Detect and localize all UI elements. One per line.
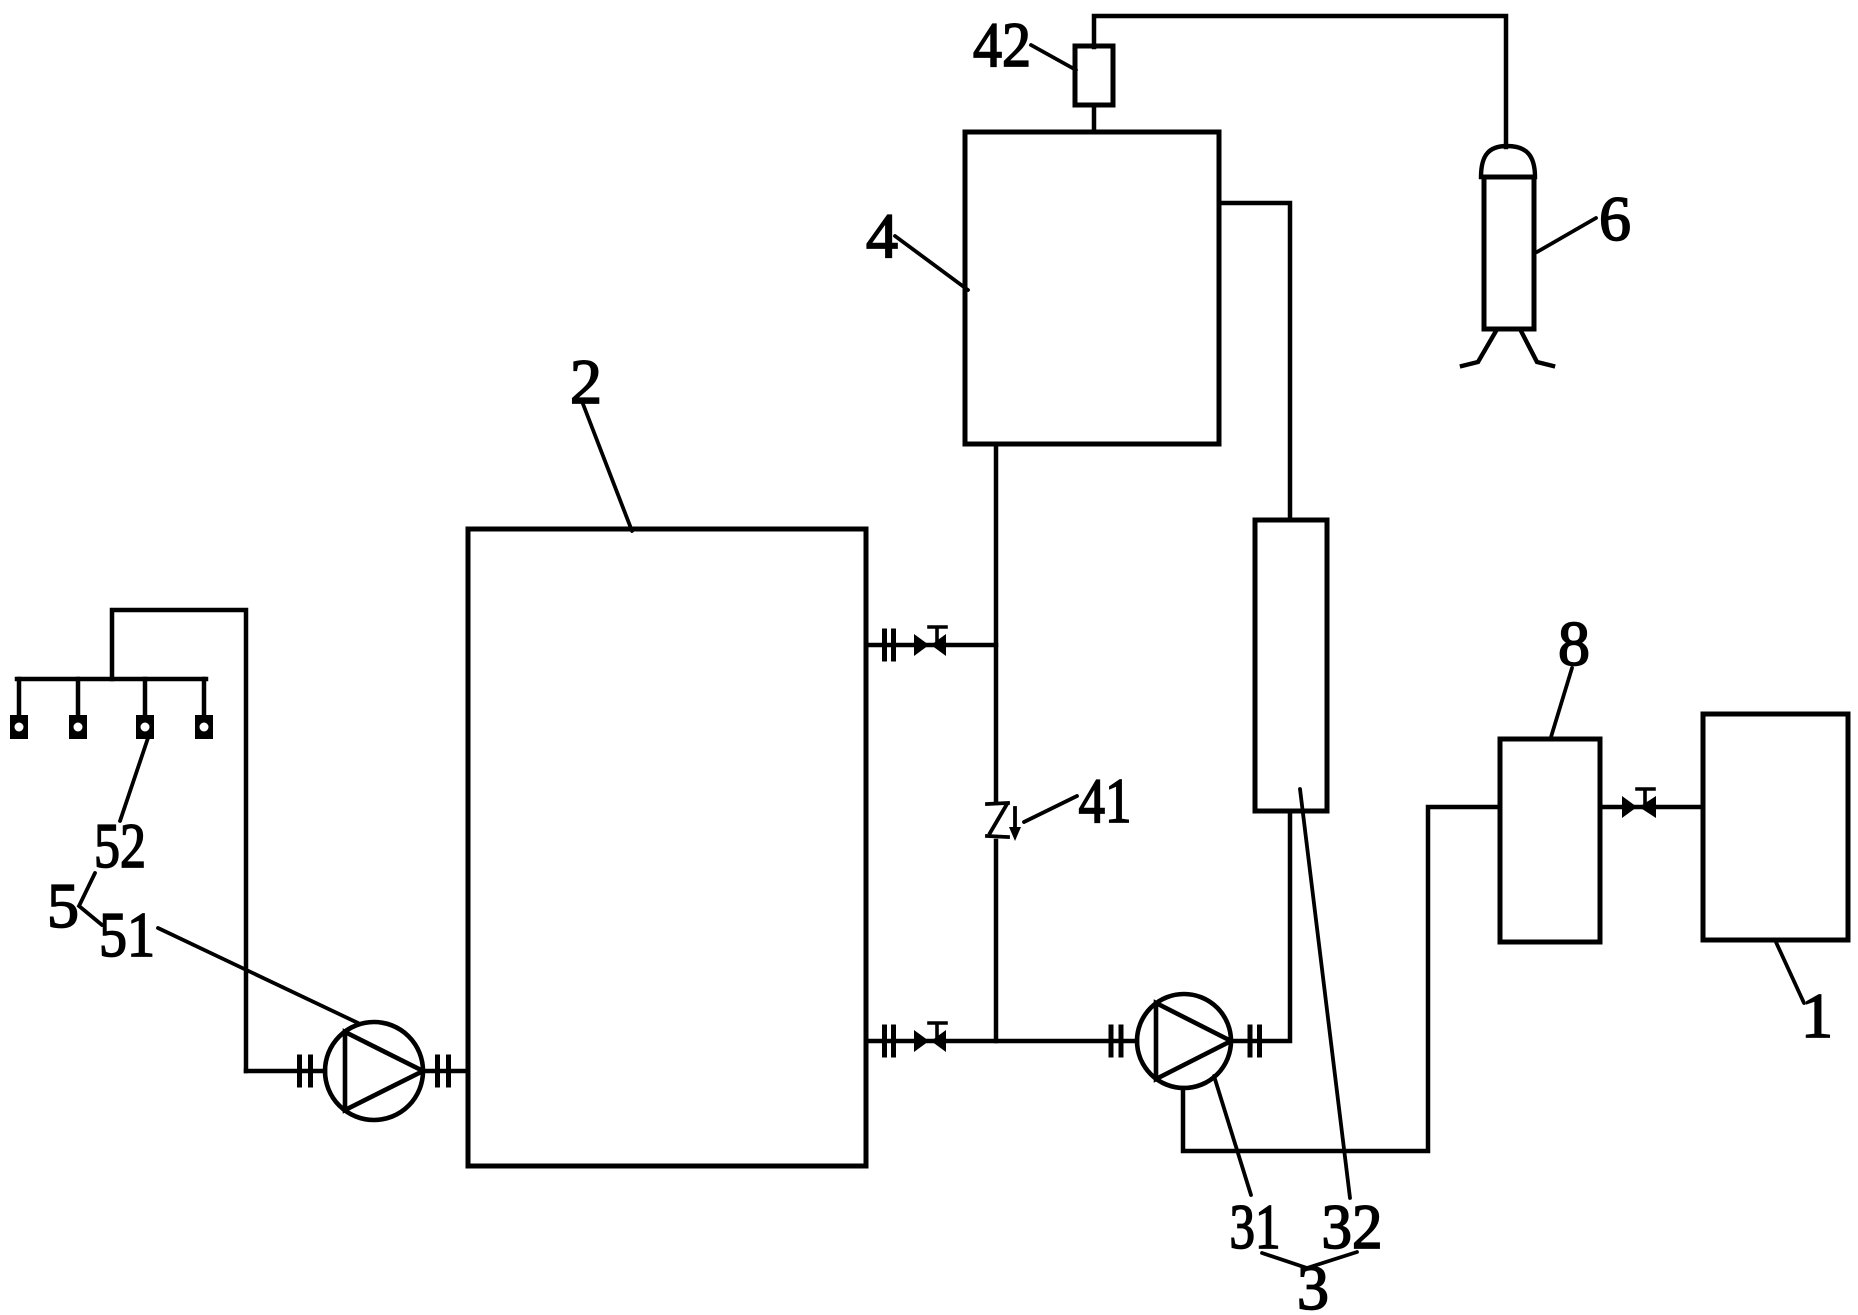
pipe spray line into pump 51 bbox=[246, 1069, 325, 1074]
flange pair before pump 51 bbox=[300, 1057, 311, 1085]
pipe pump 51 to tank 2 bbox=[423, 1069, 468, 1074]
svg-text:6: 6 bbox=[1599, 183, 1631, 254]
flange pair after pump 51 bbox=[438, 1057, 449, 1085]
bracket label 3 bbox=[1262, 1252, 1357, 1268]
vessel 6 right leg bbox=[1521, 331, 1553, 366]
tank 4 bbox=[965, 132, 1219, 444]
svg-text:32: 32 bbox=[1322, 1191, 1383, 1262]
nozzle drop 4 bbox=[202, 679, 207, 716]
pipe tank 2 upper right outlet bbox=[866, 643, 996, 648]
nozzle 1 bbox=[10, 715, 28, 739]
pipe tank 2 lower right outlet to pump 31 bbox=[866, 1039, 1137, 1044]
pipe pump 31 outlet to column 32 bottom bbox=[1231, 811, 1290, 1041]
flange pair before pump 31 bbox=[1111, 1027, 1121, 1055]
nozzle 4 bbox=[195, 715, 213, 739]
nozzle 2 bbox=[69, 715, 87, 739]
vessel 6 left leg bbox=[1462, 331, 1496, 366]
nozzle 3 bbox=[136, 715, 154, 739]
spray header pipe to pump 51 bbox=[112, 610, 246, 1071]
leader line 42 bbox=[1031, 45, 1076, 70]
pipe pump 31 bottom drain to box 8 bbox=[1183, 807, 1500, 1151]
svg-text:41: 41 bbox=[1079, 765, 1132, 836]
flange pair after pump 31 bbox=[1250, 1027, 1260, 1055]
svg-text:1: 1 bbox=[1801, 980, 1833, 1051]
column 32 bbox=[1255, 520, 1327, 811]
valve V3 between box 8 and box 1 bbox=[1622, 789, 1656, 818]
pipe tank 4 right outlet to column 32 top bbox=[1219, 203, 1290, 520]
wire top loop from condenser 42 area to vessel 6 bbox=[1094, 16, 1506, 147]
valve 41 symbol bbox=[987, 803, 1015, 837]
svg-text:2: 2 bbox=[570, 346, 602, 417]
box 8 bbox=[1500, 739, 1600, 942]
wire 42 to tank 4 bbox=[1092, 105, 1097, 132]
leader line 52 bbox=[120, 735, 149, 821]
svg-text:51: 51 bbox=[99, 899, 155, 970]
svg-text:4: 4 bbox=[866, 200, 898, 271]
svg-text:42: 42 bbox=[973, 9, 1031, 80]
svg-text:52: 52 bbox=[94, 810, 146, 881]
leader line 41 bbox=[1024, 796, 1077, 822]
svg-text:31: 31 bbox=[1230, 1191, 1281, 1262]
tank 2 bbox=[468, 529, 866, 1166]
leader line 51 bbox=[158, 928, 358, 1023]
valve V1 on upper pipe bbox=[914, 627, 946, 656]
leader line 4 bbox=[895, 236, 968, 290]
nozzle drop 1 bbox=[17, 679, 22, 716]
pipe valve 41 to lower pipe bbox=[994, 841, 999, 1041]
pump 51 bbox=[325, 1022, 423, 1120]
leader line 1 bbox=[1775, 940, 1804, 1003]
bracket label 5 bbox=[79, 873, 102, 925]
flange pair lower pipe at tank bbox=[885, 1027, 894, 1055]
leader line 6 bbox=[1537, 218, 1596, 252]
condenser 42 bbox=[1075, 46, 1113, 105]
pipe box 8 to box 1 bbox=[1600, 805, 1703, 810]
vessel 6 body bbox=[1484, 177, 1534, 329]
pipe tank 4 bottom down (upper segment above valve 41) bbox=[994, 444, 999, 802]
leader line 32 bbox=[1300, 789, 1350, 1198]
svg-text:8: 8 bbox=[1558, 608, 1590, 679]
valve V2 on lower pipe bbox=[914, 1023, 946, 1052]
leader line 8 bbox=[1551, 668, 1572, 737]
spray manifold pipe bbox=[17, 677, 206, 682]
pump 31 bbox=[1137, 994, 1231, 1088]
flange pair upper pipe bbox=[885, 631, 894, 659]
vessel 6 dome bbox=[1481, 146, 1535, 177]
box 1 bbox=[1703, 714, 1848, 940]
nozzle drop 3 bbox=[143, 679, 148, 716]
leader line 31 bbox=[1214, 1076, 1251, 1195]
leader line 2 bbox=[583, 404, 632, 531]
svg-text:3: 3 bbox=[1297, 1252, 1329, 1315]
svg-text:5: 5 bbox=[47, 870, 79, 941]
nozzle drop 2 bbox=[76, 679, 81, 716]
